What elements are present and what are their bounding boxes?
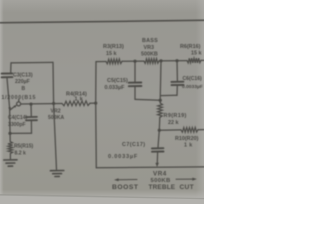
svg-text:BOOST: BOOST <box>112 184 139 191</box>
resistor R9 (R19) 22k <box>158 100 163 130</box>
wire: rail from C6 bottom to vertical <box>161 94 177 96</box>
svg-text:22 k: 22 k <box>168 120 179 126</box>
wire: R10 to right edge <box>198 129 204 131</box>
wire: VR3 to R6 <box>159 60 187 62</box>
wire: VR2 cold end down to ground <box>54 104 57 170</box>
wire: top bus right section to R3 <box>96 61 106 63</box>
wire: R3 to VR3 <box>122 60 144 62</box>
svg-text:C5(C15): C5(C15) <box>107 78 128 84</box>
arrow: BOOST direction <box>114 178 137 181</box>
wire: stub above terminal <box>18 99 20 102</box>
arrow: CUT direction <box>176 178 197 181</box>
node: junction top of C6 branch <box>175 59 178 62</box>
svg-text:C6(C16): C6(C16) <box>183 76 203 82</box>
capacitor C3 (C13) 220uF <box>2 63 13 108</box>
wire: main vertical input-to-output rail <box>95 62 98 168</box>
svg-text:R9(R19): R9(R19) <box>164 113 187 119</box>
svg-text:8.2 k: 8.2 k <box>15 151 26 157</box>
capacitor C7 (C17) 0.0033uF <box>152 130 164 163</box>
svg-text:BASS: BASS <box>142 38 158 44</box>
terminal circle of VR2 wiper <box>17 102 21 106</box>
svg-text:R3(R13): R3(R13) <box>103 44 124 50</box>
resistor R10 (R20) 1k <box>181 127 198 132</box>
ground G2 <box>50 171 63 177</box>
svg-text:CUT: CUT <box>180 184 194 191</box>
resistor R4 (R14) 1k <box>62 101 90 106</box>
wire: R6 to right edge <box>201 59 204 61</box>
wire: treble track / output line to right edge <box>96 166 204 169</box>
svg-text:500KB: 500KB <box>141 52 158 58</box>
svg-text:R5(R15): R5(R15) <box>14 143 34 149</box>
wire: left rail above R5 <box>9 108 12 142</box>
svg-text:VR3: VR3 <box>144 45 155 51</box>
svg-text:C3(C13): C3(C13) <box>13 72 33 78</box>
svg-text:B: B <box>22 86 26 92</box>
svg-text:1 k: 1 k <box>75 97 84 103</box>
resistor R3 (R13) 15k <box>106 59 122 64</box>
node A: tap junction on VR2 track <box>29 103 32 106</box>
ground G1 <box>4 160 17 166</box>
wire: C4 bottom return to left rail <box>10 132 32 134</box>
svg-text:R10(R20): R10(R20) <box>175 136 199 142</box>
svg-text:C7(C17): C7(C17) <box>122 142 146 148</box>
svg-text:1/2000(B15: 1/2000(B15 <box>2 95 37 101</box>
svg-text:R6(R16): R6(R16) <box>180 44 201 50</box>
resistor R6 (R16) 15k <box>187 58 201 63</box>
node: junction rail / R9 <box>159 99 162 102</box>
resistor R5 (R15) 8.2k <box>8 142 13 154</box>
svg-text:VR4: VR4 <box>153 171 167 178</box>
wire: vertical from top bus down to VR2 track <box>52 62 55 103</box>
wire: vertical between VR3 right end and rail <box>159 61 162 100</box>
wire: input bus segment (top left horizontal) <box>11 61 53 64</box>
wire: R5 to ground <box>9 154 11 159</box>
node: junction VR2 track / vertical from bus <box>52 102 55 105</box>
potentiometer VR3 500KB BASS (track) <box>144 59 159 64</box>
svg-text:0.0033µF: 0.0033µF <box>182 84 203 90</box>
svg-text:VR2: VR2 <box>51 109 61 115</box>
capacitor C5 (C15) 0.033uF <box>129 61 142 99</box>
svg-text:0.0033µF: 0.0033µF <box>108 154 138 160</box>
node: junction of C3, wiper arm and C4 return <box>9 107 11 109</box>
svg-text:0.033µF: 0.033µF <box>105 85 126 91</box>
node: junction on left rail <box>8 132 11 135</box>
wire: rail from C5 bottom to junction <box>135 98 160 101</box>
node: junction R9 / R10 / C7 <box>158 129 161 132</box>
wire: VR2 track left section <box>21 103 62 106</box>
svg-text:15 k: 15 k <box>191 50 202 56</box>
svg-text:1 k: 1 k <box>184 143 193 149</box>
node: junction top of R9 branch <box>159 59 162 62</box>
svg-text:15 k: 15 k <box>106 51 117 57</box>
svg-text:500KA: 500KA <box>48 115 64 121</box>
svg-text:C4(C14): C4(C14) <box>8 115 28 121</box>
wire: wiper arm diagonal with arrowhead into pot terminal <box>10 105 17 111</box>
capacitor C6 (C16) 0.0033uF <box>171 61 183 96</box>
bottom light band of photo <box>0 195 204 205</box>
svg-text:3300pF: 3300pF <box>8 122 26 128</box>
wire: junction to R10 <box>159 129 181 131</box>
node: junction top of C5 branch <box>133 60 136 63</box>
svg-text:TREBLE: TREBLE <box>149 184 176 191</box>
capacitor C4 (C14) 3300pF <box>26 104 37 133</box>
wire: R4 to right vertical <box>90 102 96 104</box>
node: junction of VR2 track with main vertical <box>94 102 97 105</box>
wire: VR4 wiper arrowhead onto treble track <box>155 163 159 167</box>
svg-text:220µF: 220µF <box>15 79 30 85</box>
